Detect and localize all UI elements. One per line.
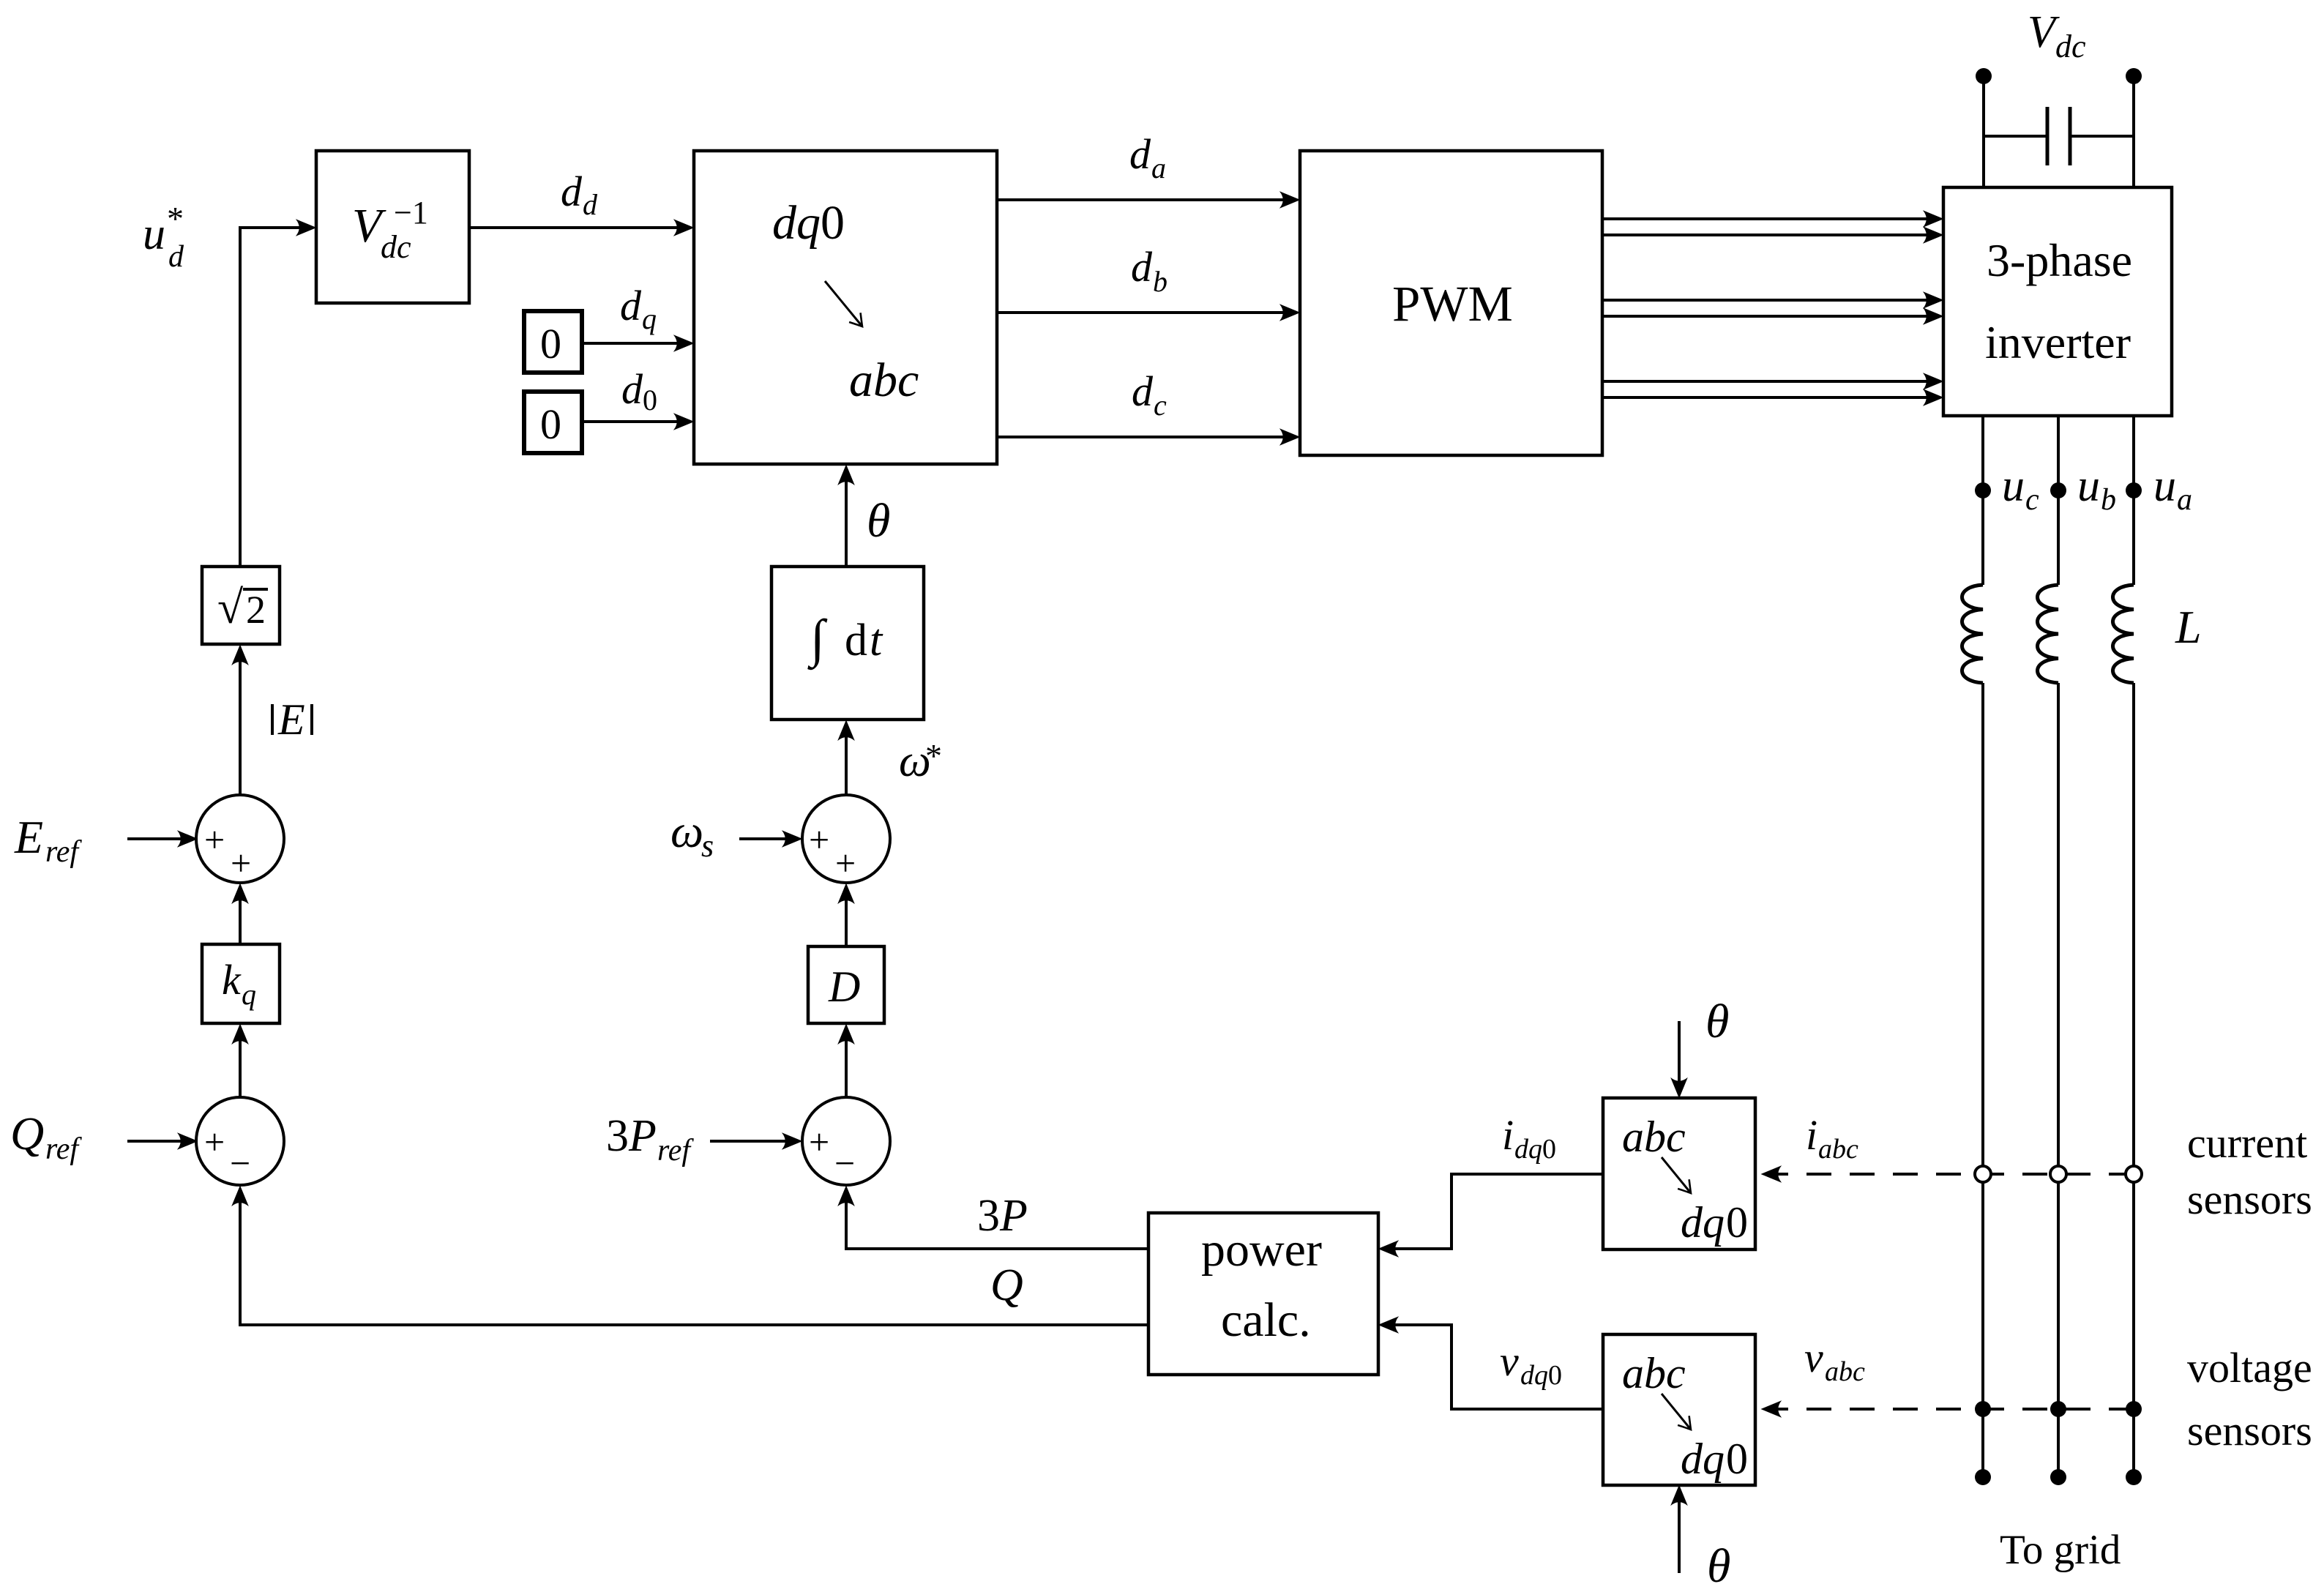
node u_b (2050, 482, 2066, 498)
svg-text:*: * (925, 737, 942, 774)
svg-text:ref: ref (657, 1134, 694, 1168)
wire d_0 (582, 420, 678, 423)
svg-text:0: 0 (540, 400, 561, 448)
wire omega* into integrator (845, 736, 848, 795)
svg-text:θ: θ (867, 494, 890, 548)
svg-text:u: u (2077, 461, 2100, 511)
svg-text:dq: dq (1681, 1435, 1725, 1483)
block sqrt2 (202, 567, 280, 644)
wire phase b to grid (2057, 683, 2060, 1477)
voltage sensor node phase c (1975, 1401, 1991, 1417)
svg-text:2: 2 (246, 588, 266, 632)
current sensor node phase c (1975, 1166, 1991, 1182)
svg-text:inverter: inverter (1985, 316, 2131, 368)
svg-text:abc: abc (1622, 1349, 1686, 1397)
svg-text:u: u (2153, 461, 2176, 511)
svg-text:u: u (143, 209, 165, 259)
summing junction Q (196, 1097, 284, 1185)
block Vdc^-1 (316, 151, 469, 303)
svg-text:sensors: sensors (2187, 1176, 2312, 1223)
node grid terminal b (2050, 1469, 2066, 1485)
voltage sensor node phase b (2050, 1401, 2066, 1417)
svg-text:d: d (1129, 130, 1151, 178)
arrow inside voltage transform block (1662, 1394, 1691, 1430)
svg-text:−: − (230, 1143, 250, 1184)
svg-text:t: t (870, 616, 883, 665)
arrow inside current transform block (1662, 1157, 1691, 1193)
svg-text:0: 0 (1548, 1360, 1562, 1391)
wire P junction to D (845, 1040, 848, 1097)
svg-text:a: a (1151, 152, 1166, 184)
constant 0 box (d_q input) (524, 311, 582, 373)
wire theta into voltage transform (1678, 1501, 1681, 1573)
svg-text:k: k (222, 956, 242, 1004)
wire 3P_ref input (710, 1140, 786, 1143)
svg-text:Q: Q (990, 1260, 1023, 1310)
node u_a (2126, 482, 2142, 498)
wire D to omega junction (845, 900, 848, 946)
label v_abc (1804, 1334, 1865, 1387)
wire phase c to grid (1981, 683, 1984, 1477)
wire i_dq0 into power calc (1394, 1174, 1603, 1249)
wire Vdc negative rail (2132, 76, 2135, 187)
svg-text:0: 0 (643, 384, 657, 416)
wire d_b (997, 311, 1284, 314)
arrow inside dq0-abc block (825, 281, 862, 326)
svg-text:E: E (14, 811, 43, 863)
svg-text:b: b (2101, 483, 2116, 517)
label d_c (1132, 367, 1167, 422)
wire v_abc dashed from voltage sensors (1777, 1408, 2134, 1411)
block power calc (1148, 1213, 1378, 1375)
wire Q_ref input (127, 1140, 182, 1143)
svg-text:+: + (204, 819, 225, 860)
node grid terminal a (2126, 1469, 2142, 1485)
block 3-phase inverter (1943, 187, 2172, 416)
svg-text:u: u (2002, 461, 2025, 511)
inductor L phase b (2038, 585, 2059, 683)
svg-text:power: power (1201, 1223, 1322, 1277)
svg-text:d: d (621, 365, 643, 413)
wire d_d (469, 226, 678, 229)
wire 3P feedback (846, 1202, 1148, 1249)
wire d_a (997, 198, 1284, 201)
svg-text:dc: dc (381, 229, 411, 265)
current sensor node phase a (2126, 1166, 2142, 1182)
svg-text:i: i (1806, 1111, 1817, 1159)
svg-text:0: 0 (821, 196, 845, 250)
block gain k_q (202, 944, 280, 1023)
capacitor C dc-link (1984, 107, 2134, 165)
label d_d (561, 168, 598, 221)
svg-text:3: 3 (606, 1111, 629, 1161)
wire PWM gate signal b1 (1602, 299, 1927, 302)
svg-text:+: + (809, 819, 829, 860)
svg-text:P: P (628, 1111, 657, 1161)
svg-text:L: L (2175, 601, 2202, 653)
svg-text:c: c (2025, 483, 2039, 517)
svg-text:To grid: To grid (2000, 1527, 2121, 1573)
svg-text:PWM: PWM (1392, 276, 1513, 332)
svg-text:voltage: voltage (2187, 1344, 2312, 1391)
svg-text:0: 0 (1726, 1435, 1748, 1483)
wire phase a to grid (2132, 683, 2135, 1477)
label 3P_ref (606, 1111, 694, 1168)
summing junction 3P (802, 1097, 890, 1185)
svg-text:d: d (583, 188, 598, 221)
svg-text:0: 0 (540, 320, 561, 367)
svg-text:ref: ref (45, 835, 82, 869)
wire i_abc dashed from current sensors (1777, 1173, 2134, 1176)
voltage sensor node phase a (2126, 1401, 2142, 1417)
label d_0 (621, 365, 657, 416)
summing junction E (196, 795, 284, 883)
inductor L phase c (1962, 585, 1984, 683)
node Vdc negative terminal (2126, 68, 2142, 84)
svg-text:−1: −1 (394, 195, 428, 231)
svg-text:θ: θ (1705, 995, 1729, 1048)
svg-text:d: d (845, 616, 867, 665)
svg-text:d: d (1131, 243, 1153, 291)
wire v_dq0 into power calc (1394, 1325, 1603, 1409)
svg-text:dq: dq (772, 196, 821, 250)
label d_b (1131, 243, 1167, 298)
svg-text:v: v (1500, 1337, 1519, 1385)
svg-text:+: + (231, 843, 251, 883)
svg-text:3-phase: 3-phase (1987, 234, 2132, 286)
node u_c (1975, 482, 1991, 498)
wire omega_s input (739, 837, 786, 840)
wire theta into dq0-abc block (845, 481, 848, 567)
wire PWM gate signal a1 (1602, 217, 1927, 220)
svg-text:P: P (999, 1191, 1028, 1241)
svg-text:ω: ω (670, 805, 703, 857)
svg-text:Q: Q (10, 1107, 44, 1159)
svg-text:c: c (1154, 389, 1167, 422)
wire phase c output (1981, 416, 1984, 585)
label u_c (2002, 461, 2039, 517)
block abc to dq0 voltage transform (1603, 1334, 1755, 1485)
wire PWM gate signal c1 (1602, 380, 1927, 383)
svg-text:d: d (1132, 367, 1154, 415)
svg-text:abc: abc (1622, 1113, 1686, 1161)
label |E| (272, 695, 312, 744)
block PWM (1300, 151, 1602, 455)
label V_dc top (2028, 7, 2086, 64)
block abc to dq0 current transform (1603, 1098, 1755, 1249)
svg-text:3: 3 (977, 1191, 1000, 1241)
svg-text:d: d (561, 168, 583, 215)
wire k_q to E junction (239, 900, 242, 944)
svg-text:E: E (277, 695, 305, 744)
svg-text:a: a (2177, 483, 2192, 517)
label voltage sensors (2187, 1344, 2312, 1454)
svg-text:√: √ (217, 581, 244, 633)
wire phase a output (2132, 416, 2135, 585)
wire PWM gate signal b2 (1602, 315, 1927, 318)
svg-text:b: b (1153, 265, 1167, 298)
svg-text:sensors: sensors (2187, 1407, 2312, 1454)
wire PWM gate signal a2 (1602, 234, 1927, 236)
svg-text:d: d (168, 240, 184, 274)
svg-text:q: q (642, 302, 657, 335)
label i_dq0 (1502, 1111, 1556, 1165)
svg-text:0: 0 (1726, 1198, 1748, 1247)
svg-text:+: + (204, 1121, 225, 1162)
label omega* (899, 736, 942, 786)
block integrator (771, 567, 924, 720)
svg-text:dq: dq (1681, 1198, 1725, 1247)
svg-text:abc: abc (849, 354, 919, 407)
svg-text:0: 0 (1542, 1134, 1556, 1165)
wire PWM gate signal c2 (1602, 396, 1927, 399)
wire Q junction to k_q (239, 1040, 242, 1097)
wire E_ref input (127, 837, 182, 840)
svg-text:−: − (834, 1143, 855, 1184)
wire d_c (997, 436, 1284, 438)
label u_b (2077, 461, 2116, 517)
svg-text:current: current (2187, 1119, 2307, 1167)
summing junction omega (802, 795, 890, 883)
label Q_ref (10, 1107, 82, 1166)
svg-text:*: * (167, 200, 184, 237)
svg-text:+: + (809, 1121, 829, 1162)
svg-text:i: i (1502, 1111, 1514, 1159)
svg-text:s: s (701, 828, 714, 864)
wire u_d* to Vdc inverse block (240, 228, 300, 567)
svg-text:ref: ref (45, 1132, 82, 1166)
current sensor node phase b (2050, 1166, 2066, 1182)
wire Vdc positive rail (1982, 76, 1985, 187)
label i_abc (1806, 1111, 1858, 1165)
constant 0 box (d_0 input) (524, 392, 582, 453)
svg-text:D: D (828, 963, 860, 1011)
svg-text:abc: abc (1818, 1134, 1858, 1165)
label d_a (1129, 130, 1166, 184)
wire theta into current transform (1678, 1021, 1681, 1082)
label omega_s (670, 805, 714, 864)
svg-text:θ: θ (1707, 1539, 1730, 1584)
label 3P (977, 1191, 1028, 1241)
label current sensors (2187, 1119, 2312, 1223)
block droop gain D (808, 946, 884, 1023)
svg-text:d: d (620, 282, 642, 329)
svg-text:dq: dq (1514, 1134, 1542, 1165)
label v_dq0 (1500, 1337, 1562, 1391)
svg-text:dq: dq (1520, 1360, 1548, 1391)
svg-text:calc.: calc. (1221, 1293, 1311, 1347)
svg-text:dc: dc (2055, 29, 2086, 64)
svg-text:q: q (242, 978, 256, 1011)
node u_d* label (143, 200, 184, 274)
node Vdc positive terminal (1976, 68, 1992, 84)
svg-text:abc: abc (1825, 1356, 1865, 1387)
wire |E| to sqrt2 (239, 661, 242, 795)
node grid terminal c (1975, 1469, 1991, 1485)
label u_a (2153, 461, 2192, 517)
svg-text:v: v (1804, 1334, 1823, 1381)
wire phase b output (2057, 416, 2060, 585)
wire Q feedback (240, 1202, 1148, 1325)
block dq0 to abc transform U2 (694, 151, 997, 464)
svg-text:+: + (835, 843, 856, 883)
label E_ref (14, 811, 82, 869)
label d_q (620, 282, 657, 335)
wire d_q (582, 342, 678, 345)
inductor L phase a (2113, 585, 2134, 683)
